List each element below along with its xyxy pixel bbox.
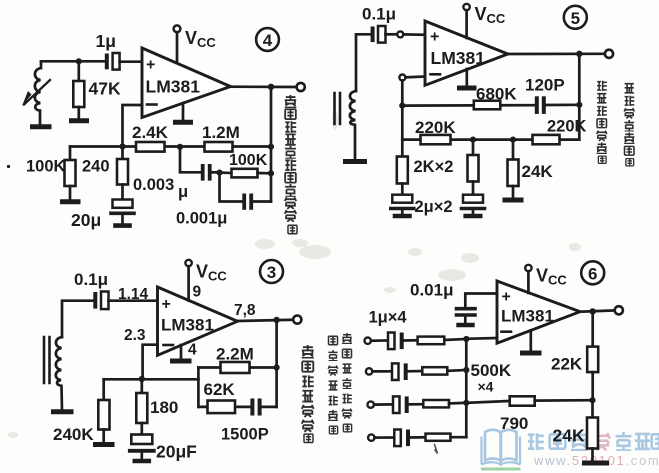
wire out3 drop: [275, 320, 278, 407]
ground (20u): [116, 223, 130, 228]
node rail-a: [470, 137, 476, 143]
ground (2u second): [466, 214, 481, 219]
node c5 fb: [399, 103, 405, 109]
svg-text:240K: 240K: [53, 425, 94, 444]
wire +in c6: [465, 294, 497, 308]
input row1: terminal: [365, 338, 371, 344]
ground (47K): [72, 118, 87, 123]
tape head coil (c3): [56, 337, 62, 410]
capacitor 1u row4: [394, 430, 401, 447]
svg-text:LM381: LM381: [161, 316, 214, 335]
resistor 62K: [208, 401, 236, 414]
node row2: [463, 367, 469, 373]
resistor 2Kx2: [401, 140, 404, 157]
wire -in c3: [143, 345, 158, 379]
resistor 2.2M: [221, 362, 250, 373]
svg-text:24K: 24K: [553, 426, 585, 446]
capacitor 0.003u: [201, 164, 205, 181]
node 120P-out: [576, 102, 582, 108]
svg-text:0.1μ: 0.1μ: [74, 270, 108, 289]
capacitor 1u row1: [388, 333, 395, 350]
svg-text:220K: 220K: [415, 118, 456, 137]
wire output: [231, 85, 297, 88]
watermark CJK title: [528, 432, 659, 451]
scan smudges: [8, 110, 581, 438]
ground (24K c6): [585, 461, 607, 466]
wire -in c6: [466, 337, 497, 340]
terminal out5: [605, 50, 613, 58]
phono cartridge coil: [35, 61, 41, 125]
wire out5 drop: [578, 54, 581, 140]
svg-text:LM381: LM381: [146, 77, 201, 97]
svg-text:500K: 500K: [471, 361, 512, 380]
svg-text:47K: 47K: [89, 79, 121, 99]
ground (24K c5): [505, 198, 521, 203]
resistor 790: [510, 396, 535, 405]
wire output drop: [270, 87, 273, 202]
capacitor 20uF electrolytic: [131, 435, 152, 445]
node input j4a: [76, 58, 82, 64]
cartridge arrow: [24, 80, 50, 105]
svg-text:VCC: VCC: [196, 262, 227, 284]
circle badge 5: [564, 6, 587, 29]
svg-text:100K: 100K: [26, 158, 66, 176]
capacitor 0.01u: [457, 307, 476, 311]
capacitor 1u: [105, 54, 109, 70]
ground (20uF): [135, 459, 149, 464]
input row3: terminal: [368, 401, 374, 407]
resistor 680K: [474, 101, 501, 110]
terminal -in c5: [406, 75, 426, 79]
node row1: [463, 336, 469, 342]
ground (240K): [96, 442, 113, 447]
wire 0.001 branch: [220, 173, 243, 202]
tape head coil (c5): [350, 91, 356, 159]
terminal out3: [293, 316, 301, 324]
resistor 500K row2: [422, 367, 447, 374]
svg-text:2.2M: 2.2M: [216, 345, 254, 364]
op-amp U5 LM381: [425, 21, 508, 85]
wire output c3: [238, 320, 294, 321]
svg-text:+: +: [162, 296, 171, 313]
svg-text:0.01μ: 0.01μ: [410, 281, 454, 300]
svg-text:62K: 62K: [204, 380, 236, 399]
capacitor 2ux2 (second): [463, 195, 483, 203]
terminal out6: [615, 306, 623, 314]
resistor 240K: [102, 379, 105, 400]
node out6: [590, 308, 596, 314]
watermark book icon: [482, 430, 521, 465]
wire 0.003 branch: [180, 147, 201, 173]
capacitor 1500P: [250, 399, 254, 416]
resistor 220K right: [533, 135, 560, 144]
svg-text:240: 240: [82, 158, 110, 176]
svg-text:220K: 220K: [547, 118, 587, 136]
wire feedback rail: [70, 145, 271, 148]
capacitor 120P: [535, 96, 539, 114]
wire 220K rail: [402, 138, 579, 141]
circle badge 6: [581, 261, 604, 284]
svg-text:180: 180: [150, 398, 178, 417]
svg-text:2.3: 2.3: [124, 327, 146, 344]
resistor 100K (left): [69, 147, 72, 161]
ground (tape head c5): [346, 159, 365, 164]
svg-text:2K×2: 2K×2: [414, 158, 454, 176]
svg-text:1μ: 1μ: [96, 31, 116, 51]
svg-text:4: 4: [263, 31, 273, 50]
input row2: terminal: [366, 368, 372, 374]
wire input top: [41, 60, 106, 63]
svg-text:+: +: [502, 289, 511, 306]
capacitor 1u row3: [393, 396, 400, 413]
svg-text:3: 3: [267, 263, 276, 282]
resistor 22K: [587, 347, 598, 373]
wire box left side: [197, 368, 200, 407]
resistor 24K (c5): [512, 140, 515, 160]
terminal out4: [297, 83, 305, 91]
stray dot: [7, 165, 10, 168]
svg-text:1.2M: 1.2M: [202, 123, 240, 142]
VCC terminal: [174, 25, 181, 32]
svg-text:VCC: VCC: [536, 266, 567, 288]
op-amp U4 LM381: [142, 48, 231, 118]
svg-text:2μ×2: 2μ×2: [415, 198, 453, 216]
svg-text:LM381: LM381: [431, 48, 486, 68]
wire row3 to 790: [466, 401, 509, 403]
svg-text:6: 6: [588, 264, 597, 283]
wire out6 drop / 22K: [591, 311, 594, 346]
watermark book base (green): [481, 468, 521, 471]
node fb-minus: [119, 143, 125, 149]
capacitor 1u row2: [392, 363, 399, 380]
node fb-mid: [177, 144, 183, 150]
svg-text:LM381: LM381: [501, 307, 554, 326]
capacitor 0.1u (c5): [371, 27, 375, 43]
svg-text:120P: 120P: [525, 76, 565, 95]
svg-text:0.1μ: 0.1μ: [362, 5, 396, 24]
ground (tape head c3): [54, 409, 72, 414]
node out3: [273, 317, 279, 323]
label col circuit4: dian xing ci xing chang ji qian zhi fang da qi: [285, 95, 297, 234]
svg-text:20μF: 20μF: [156, 442, 197, 462]
label cols circuit6: [342, 333, 352, 432]
label col circuit3: [302, 345, 314, 442]
wire input c5: [356, 34, 371, 91]
node bias: [139, 376, 145, 382]
ground (0.01u): [459, 323, 473, 327]
ground (op-amp U6): [529, 331, 532, 352]
op-amp U3 LM381: [158, 287, 238, 355]
svg-text:20μ: 20μ: [71, 210, 101, 230]
node fb-right: [268, 144, 274, 150]
terminal +in c5: [386, 33, 398, 36]
resistor 500K row1: [418, 337, 445, 345]
wire bias rail c3: [104, 378, 199, 381]
svg-text:1μ×4: 1μ×4: [369, 309, 408, 327]
node fb3: [274, 364, 280, 370]
wire cap to +in: [120, 60, 142, 63]
wire -in drop: [401, 81, 404, 140]
svg-text:680K: 680K: [476, 85, 517, 104]
svg-text:22K: 22K: [551, 355, 583, 374]
resistor 240: [121, 147, 124, 160]
op-amp U6 LM381: [497, 281, 580, 343]
svg-text:4: 4: [188, 342, 197, 359]
label cols circuit5: [624, 84, 634, 166]
node cap-j: [216, 170, 222, 176]
svg-text:+: +: [146, 57, 155, 74]
tape head core lines (c3): [44, 337, 50, 383]
VCC terminal c6: [525, 265, 531, 271]
resistor 100K (right): [220, 171, 232, 174]
capacitor 0.1u (c3): [93, 292, 97, 309]
node out5: [576, 51, 582, 57]
svg-text:1.14: 1.14: [118, 286, 149, 303]
wire output c5: [508, 52, 605, 55]
capacitor 2ux2 (first): [392, 195, 412, 203]
svg-text:μ: μ: [178, 183, 188, 201]
svg-text:790: 790: [500, 414, 528, 433]
wire input c3: [62, 301, 93, 337]
ground (2u first): [395, 214, 410, 219]
wire 680K rail: [402, 104, 535, 107]
wire 2.2M rail: [198, 366, 276, 369]
node out4: [268, 84, 274, 90]
wire 62K rail: [198, 406, 250, 409]
node row3: [463, 400, 469, 406]
resistor 2.4K: [136, 142, 165, 152]
resistor 1.2M: [205, 142, 233, 152]
VCC terminal c5: [463, 4, 469, 10]
ground (cartridge): [33, 124, 50, 129]
ground (100K): [63, 199, 79, 204]
input bus vertical: [465, 339, 468, 437]
svg-text:0.003: 0.003: [133, 176, 174, 194]
svg-text:VCC: VCC: [475, 4, 506, 26]
svg-text:5: 5: [571, 9, 580, 28]
ground (op-amp U3): [180, 345, 183, 360]
svg-text:24K: 24K: [522, 162, 554, 181]
svg-text:×4: ×4: [478, 379, 494, 395]
resistor 180: [140, 379, 143, 393]
svg-text:2.4K: 2.4K: [132, 123, 169, 142]
svg-text:0.001μ: 0.001μ: [176, 210, 227, 228]
ground (op-amp U4): [182, 103, 185, 121]
svg-text:VCC: VCC: [185, 28, 216, 50]
stray mark row4: [435, 445, 438, 454]
capacitor 20u electrolytic: [113, 200, 133, 208]
resistor 220K left: [421, 135, 451, 144]
svg-text:100K: 100K: [229, 152, 268, 169]
node 790-right: [589, 397, 595, 403]
circle badge 4: [256, 28, 279, 51]
svg-text:7,8: 7,8: [234, 302, 256, 319]
svg-text:1500P: 1500P: [221, 426, 269, 444]
resistor 47K: [77, 61, 80, 81]
ground (op-amp U5): [465, 69, 468, 87]
svg-text:+: +: [430, 29, 439, 46]
resistor 24K (c6): [591, 400, 594, 417]
VCC terminal c3: [185, 260, 191, 266]
capacitor 0.001u: [242, 194, 246, 210]
resistor 500K row3: [423, 400, 449, 407]
resistor 500K row4: [426, 434, 451, 441]
input row4: terminal: [368, 434, 374, 440]
wire inverting input: [123, 105, 143, 147]
wire output c6: [580, 310, 615, 311]
svg-text:9: 9: [193, 284, 202, 301]
tape head core lines: [335, 93, 341, 124]
circle badge 3: [260, 260, 283, 283]
node rail-b: [510, 137, 516, 143]
resistor mid branch: [472, 140, 475, 155]
wire cap to +in c3: [109, 299, 158, 302]
